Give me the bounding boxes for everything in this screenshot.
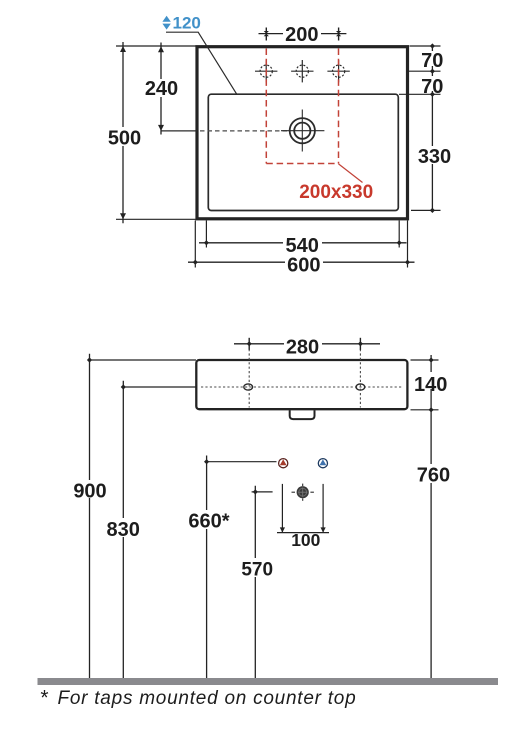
svg-text:70: 70	[421, 50, 443, 72]
svg-text:330: 330	[418, 146, 451, 168]
svg-text:For taps mounted on counter to: For taps mounted on counter top	[58, 688, 357, 709]
svg-text:540: 540	[286, 235, 319, 257]
svg-text:200x330: 200x330	[299, 182, 373, 203]
svg-text:*: *	[40, 687, 49, 710]
svg-text:830: 830	[107, 519, 140, 541]
svg-text:240: 240	[145, 78, 178, 100]
svg-text:900: 900	[73, 480, 106, 502]
svg-text:760: 760	[417, 465, 450, 487]
svg-text:660*: 660*	[188, 510, 229, 532]
svg-text:100: 100	[291, 530, 320, 550]
svg-text:200: 200	[285, 24, 318, 46]
svg-text:280: 280	[286, 337, 319, 359]
svg-text:140: 140	[414, 374, 447, 396]
svg-text:120: 120	[173, 14, 201, 33]
svg-text:70: 70	[421, 76, 443, 98]
svg-text:600: 600	[287, 255, 320, 277]
svg-text:500: 500	[108, 128, 141, 150]
svg-text:570: 570	[241, 559, 273, 580]
